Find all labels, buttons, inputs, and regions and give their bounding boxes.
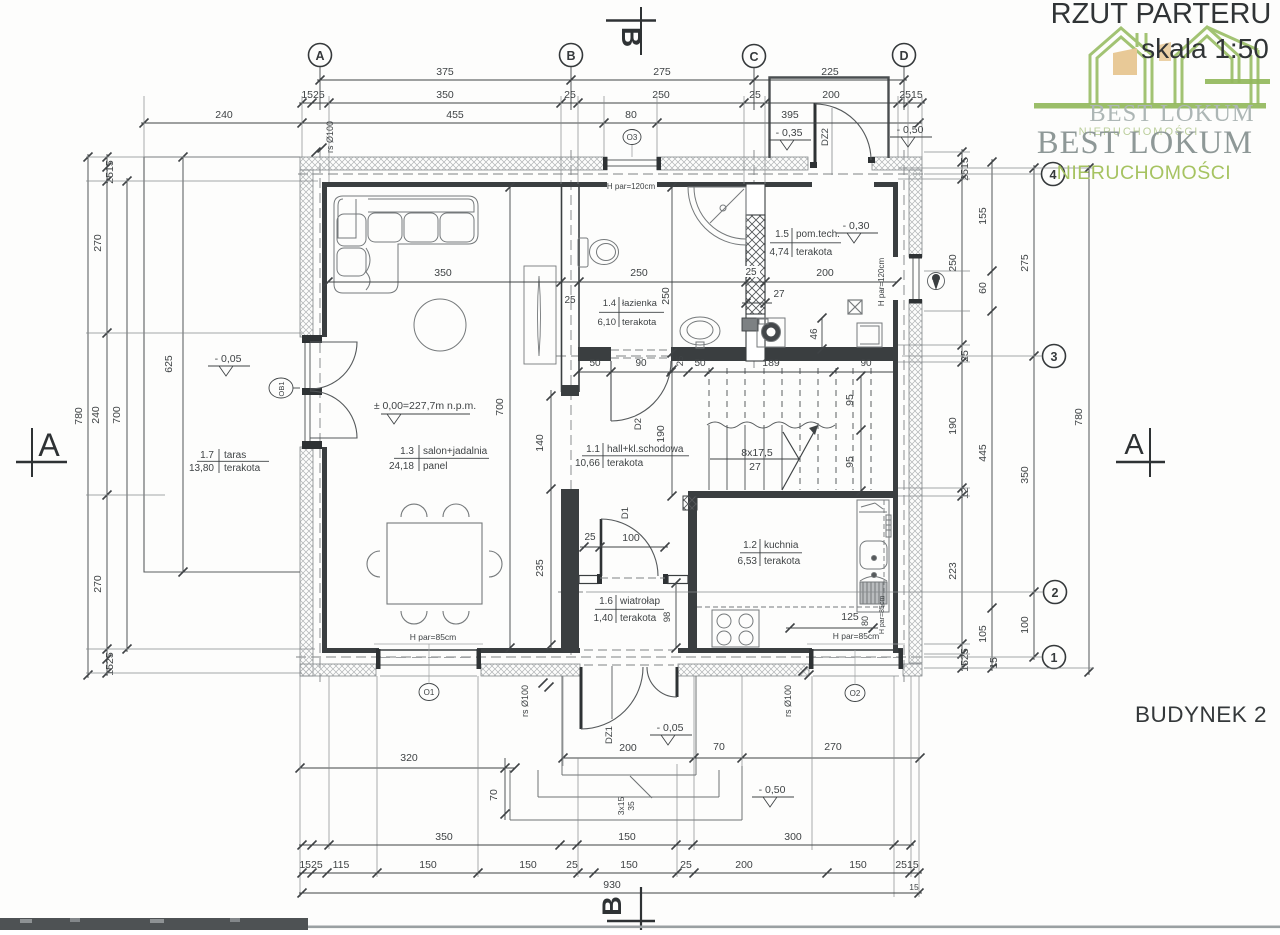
axis D line: [903, 150, 905, 682]
svg-text:D: D: [899, 49, 908, 63]
logo door tan: [1113, 48, 1137, 75]
svg-text:320: 320: [400, 752, 418, 764]
logo houses: [1090, 27, 1258, 104]
svg-text:H par=120cm: H par=120cm: [877, 258, 886, 307]
svg-text:60: 60: [977, 282, 989, 294]
dim row C 930: [299, 892, 922, 894]
wall hatch bottom seg3: [678, 664, 809, 676]
svg-text:15: 15: [988, 657, 1000, 669]
svg-text:780: 780: [73, 407, 85, 425]
svg-text:3: 3: [1051, 350, 1058, 364]
svg-text:90: 90: [860, 358, 872, 369]
svg-text:250: 250: [652, 89, 670, 101]
svg-text:150: 150: [419, 859, 437, 871]
dim 320: [300, 767, 515, 769]
svg-text:200: 200: [816, 267, 834, 279]
bottom-left smudge: [0, 918, 308, 930]
svg-text:70: 70: [713, 741, 725, 753]
wall bathroom-hall seg2: [671, 347, 746, 361]
svg-text:270: 270: [824, 741, 842, 753]
chimney shaft: [746, 184, 765, 361]
svg-text:200: 200: [735, 859, 753, 871]
svg-text:140: 140: [534, 434, 546, 452]
axis C line: [753, 150, 755, 368]
svg-text:- 0,30: - 0,30: [843, 220, 870, 232]
svg-text:1,40: 1,40: [594, 613, 614, 624]
svg-text:pom.tech.: pom.tech.: [796, 229, 840, 240]
svg-text:skala 1:50: skala 1:50: [1141, 33, 1269, 64]
sideboard: [524, 266, 556, 364]
dim kitchen 125: [786, 627, 878, 629]
axis B line: [570, 150, 572, 660]
svg-text:6,53: 6,53: [738, 556, 758, 567]
axis circle B: [560, 44, 583, 67]
svg-text:105: 105: [977, 625, 989, 643]
dim stairs top row: [578, 371, 894, 373]
svg-text:RZUT PARTERU: RZUT PARTERU: [1051, 0, 1272, 30]
wall hatch bottom seg2: [481, 664, 580, 676]
svg-text:50: 50: [694, 358, 706, 369]
svg-text:235: 235: [534, 559, 546, 577]
svg-text:terakota: terakota: [764, 556, 801, 567]
svg-text:± 0,00=227,7m n.p.m.: ± 0,00=227,7m n.p.m.: [374, 400, 476, 412]
svg-text:rs Ø100: rs Ø100: [783, 685, 793, 717]
svg-text:70: 70: [488, 789, 500, 801]
svg-text:- 0,05: - 0,05: [657, 722, 684, 734]
door DZ2 porch: [814, 103, 817, 166]
terrace dim 625: [182, 157, 184, 572]
svg-text:150: 150: [620, 859, 638, 871]
axis 4 line: [298, 173, 924, 175]
dim salon 350: [328, 281, 897, 283]
svg-text:225: 225: [821, 66, 839, 78]
svg-text:kuchnia: kuchnia: [764, 540, 799, 551]
axis 3 line: [556, 355, 898, 357]
kitchen counter right: [857, 500, 891, 612]
shower: [688, 187, 746, 245]
svg-text:12: 12: [959, 487, 971, 499]
svg-text:350: 350: [435, 831, 453, 843]
svg-text:taras: taras: [224, 450, 246, 461]
wall inner face left upper: [322, 187, 327, 337]
svg-text:terakota: terakota: [622, 317, 657, 328]
dining table: [387, 523, 482, 604]
porch door centerline: [831, 108, 833, 175]
stairs break line: [707, 422, 835, 428]
svg-text:D2: D2: [633, 418, 644, 430]
bottom scan line: [0, 926, 1280, 929]
svg-text:1.3: 1.3: [400, 446, 414, 457]
axis connectors right: [924, 173, 1041, 175]
svg-text:98: 98: [662, 612, 673, 623]
dim bathroom chain 250/25/190: [671, 187, 673, 496]
wall hatch left upper: [300, 170, 313, 337]
svg-text:1.4: 1.4: [603, 298, 616, 309]
wall hatch right lower: [909, 300, 922, 663]
washbasin: [680, 317, 720, 348]
wall hatch top-mid segment: [657, 157, 808, 170]
witness lines top: [143, 96, 145, 157]
wall hatch top-right segment: [872, 157, 922, 170]
svg-text:125: 125: [841, 611, 859, 623]
svg-text:223: 223: [947, 562, 959, 580]
boiler: [857, 323, 882, 347]
svg-text:DZ2: DZ2: [820, 128, 831, 146]
axis A line: [319, 148, 321, 682]
section A right: [1149, 428, 1151, 477]
svg-text:300: 300: [784, 831, 802, 843]
svg-text:50: 50: [589, 358, 601, 369]
wall hatch top-left segment: [300, 157, 607, 170]
terrace outline: [144, 157, 300, 572]
svg-text:1.1: 1.1: [586, 444, 600, 455]
stairs arrow: [782, 432, 814, 490]
wall inner face bottom seg1: [322, 648, 379, 653]
svg-text:BEST LOKUM: BEST LOKUM: [1089, 100, 1254, 127]
svg-text:13,80: 13,80: [189, 463, 214, 474]
svg-text:4,74: 4,74: [770, 247, 790, 258]
porch outline: [770, 78, 889, 159]
svg-text:80: 80: [625, 109, 637, 121]
steps slope mark: [630, 776, 652, 798]
axis circle D: [893, 44, 916, 67]
dim stairs 95/95: [860, 376, 862, 491]
svg-text:1525: 1525: [299, 859, 323, 871]
svg-text:700: 700: [494, 398, 506, 416]
svg-text:350: 350: [434, 267, 452, 279]
dim salon 700: [509, 187, 511, 648]
wall stairs-kitchen: [688, 491, 893, 498]
svg-text:100: 100: [622, 532, 640, 544]
wall kitchen-west: [688, 498, 697, 648]
window O1: [380, 649, 477, 651]
wall inner face top seg2: [657, 182, 812, 187]
wall inner face bottom seg2: [477, 648, 580, 653]
svg-text:200: 200: [619, 742, 637, 754]
svg-text:NIERUCHOMOŚCI: NIERUCHOMOŚCI: [1057, 160, 1231, 184]
wall salon-wiatrolap: [561, 489, 579, 653]
dim right chain3: [1033, 165, 1035, 660]
svg-text:DZ1: DZ1: [604, 726, 615, 744]
svg-text:1.5: 1.5: [775, 229, 789, 240]
axis 1 line: [296, 656, 924, 658]
section B top: [640, 7, 642, 55]
svg-text:A: A: [38, 427, 60, 463]
svg-text:25: 25: [745, 267, 757, 278]
svg-text:2515: 2515: [104, 160, 116, 184]
label OB1: [269, 378, 293, 398]
svg-text:2515: 2515: [895, 859, 919, 871]
svg-text:27: 27: [773, 289, 785, 300]
svg-text:- 0,50: - 0,50: [897, 124, 924, 136]
witness bottom: [299, 676, 301, 897]
axis circle 2: [1044, 581, 1067, 604]
svg-text:46: 46: [809, 328, 820, 340]
svg-text:25: 25: [584, 532, 596, 543]
svg-text:terakota: terakota: [796, 247, 833, 258]
svg-text:25: 25: [680, 859, 692, 871]
axis circle 3: [1043, 345, 1066, 368]
dim row3 240/455/80/395: [141, 122, 922, 124]
wall inner face top seg3: [874, 182, 898, 187]
svg-text:B: B: [597, 896, 627, 916]
svg-text:240: 240: [215, 109, 233, 121]
svg-text:A: A: [1124, 429, 1144, 461]
svg-text:1: 1: [1051, 651, 1058, 665]
door DZ1 leaf2: [676, 667, 679, 697]
svg-text:95: 95: [844, 394, 856, 406]
svg-text:190: 190: [655, 425, 667, 443]
rug circle: [414, 299, 466, 351]
dim right chain2: [991, 159, 993, 671]
svg-text:25: 25: [564, 89, 576, 101]
dim right chain1: [961, 149, 963, 671]
wall inner face left lower: [322, 447, 327, 653]
section A left: [31, 428, 33, 477]
svg-text:115: 115: [333, 859, 350, 871]
stove: [712, 610, 759, 647]
axis circle 1: [1043, 646, 1066, 669]
wall hatch right upper: [909, 170, 922, 257]
sofa: [334, 196, 478, 293]
wall inner face bottom seg3: [678, 648, 812, 653]
hatched block kitchen corner: [683, 496, 697, 510]
svg-text:25: 25: [675, 356, 686, 367]
svg-text:8x17,5: 8x17,5: [741, 447, 773, 459]
svg-text:C: C: [749, 50, 758, 64]
balcony door OB1 glazing: [304, 337, 306, 447]
svg-text:4: 4: [1050, 168, 1057, 182]
svg-text:35: 35: [626, 801, 636, 811]
logo bars: [1034, 103, 1266, 109]
svg-text:O1: O1: [424, 688, 435, 697]
svg-text:190: 190: [947, 417, 959, 435]
wall hatch left lower: [300, 447, 313, 676]
svg-text:95: 95: [844, 456, 856, 468]
floor gully: [742, 318, 758, 331]
svg-text:270: 270: [92, 234, 104, 252]
entry steps: [561, 676, 563, 775]
vent symbol right: [928, 273, 945, 290]
svg-text:BUDYNEK 2: BUDYNEK 2: [1135, 702, 1267, 727]
label O2: [845, 685, 865, 702]
svg-text:BEST LOKUM: BEST LOKUM: [1037, 125, 1253, 161]
svg-text:350: 350: [436, 89, 454, 101]
dim 46 washer: [821, 318, 823, 349]
svg-text:rs Ø100: rs Ø100: [325, 121, 335, 153]
svg-text:1525: 1525: [104, 652, 116, 676]
svg-text:275: 275: [1019, 254, 1031, 272]
dim left 780: [87, 154, 89, 678]
svg-text:B: B: [566, 49, 575, 63]
stairs treads: [709, 368, 871, 490]
window O3: [607, 159, 657, 161]
svg-text:H par=85cm: H par=85cm: [879, 596, 886, 634]
witness lines left: [86, 156, 300, 158]
svg-text:200: 200: [822, 89, 840, 101]
svg-text:24,18: 24,18: [389, 461, 414, 472]
dim row2: [299, 102, 925, 104]
svg-text:2: 2: [1052, 586, 1059, 600]
dim salon 140/235 chain: [550, 390, 552, 650]
svg-text:189: 189: [762, 357, 780, 369]
svg-text:15: 15: [909, 882, 919, 892]
door D2: [610, 361, 612, 421]
svg-text:terakota: terakota: [224, 463, 261, 474]
svg-text:O2: O2: [850, 689, 861, 698]
svg-text:150: 150: [519, 859, 537, 871]
wall inner face top seg1: [322, 182, 607, 187]
svg-text:6,10: 6,10: [598, 317, 617, 328]
svg-text:1.2: 1.2: [743, 540, 757, 551]
dim D1 100: [580, 546, 668, 548]
toilet: [578, 238, 619, 267]
wall inner face bottom seg4: [893, 648, 903, 653]
svg-text:2515: 2515: [959, 157, 971, 181]
dim row A 350/150/300: [299, 844, 914, 846]
svg-text:terakota: terakota: [607, 458, 644, 469]
wall salon-bathroom outline: [561, 182, 563, 392]
svg-text:250: 250: [660, 287, 672, 305]
svg-text:625: 625: [163, 355, 175, 373]
window right wall: [912, 258, 914, 300]
label O1: [419, 684, 439, 701]
svg-text:- 0,05: - 0,05: [215, 353, 242, 365]
door DZ1 leaf1: [580, 667, 583, 729]
kitchen counter dashed: [697, 606, 884, 608]
svg-text:350: 350: [1019, 466, 1031, 484]
door OB1 leaves: [310, 342, 357, 389]
svg-text:3x15: 3x15: [616, 797, 626, 816]
dim wiatrolap 98: [675, 583, 677, 648]
svg-text:D1: D1: [620, 507, 631, 519]
svg-text:łazienka: łazienka: [622, 298, 658, 309]
svg-text:H par=85cm: H par=85cm: [410, 632, 457, 642]
wall inner face right lower: [893, 300, 898, 648]
chairs: [367, 504, 502, 624]
dim 200/70: [563, 757, 920, 759]
axis circle C: [743, 45, 766, 68]
svg-text:80: 80: [860, 616, 870, 626]
svg-text:155: 155: [977, 207, 989, 225]
wall pomtech-hall: [765, 347, 893, 361]
svg-text:terakota: terakota: [620, 613, 657, 624]
window O2: [813, 649, 899, 651]
svg-text:150: 150: [849, 859, 867, 871]
wall wiatrolap-north seg1: [579, 576, 598, 584]
svg-text:275: 275: [653, 66, 671, 78]
wall hatch bottom seg4: [903, 664, 922, 676]
door D1: [600, 519, 603, 576]
svg-text:2515: 2515: [899, 89, 923, 101]
dim right 780: [1088, 165, 1090, 675]
axis circle 4: [1042, 163, 1065, 186]
svg-text:100: 100: [1019, 616, 1031, 634]
svg-text:25: 25: [564, 295, 576, 306]
dim left chain: [106, 154, 108, 676]
svg-text:panel: panel: [423, 461, 447, 472]
dim row B: [299, 872, 922, 874]
svg-text:780: 780: [1073, 408, 1085, 426]
svg-text:A: A: [315, 49, 324, 63]
dim bathroom row 250/25/200: [743, 266, 760, 277]
witness lines right: [924, 151, 970, 153]
svg-text:455: 455: [446, 109, 464, 121]
axis circle A: [309, 44, 332, 67]
wall inner face right upper: [893, 187, 898, 257]
svg-text:25: 25: [566, 859, 578, 871]
svg-text:930: 930: [603, 879, 621, 891]
svg-text:H par=120cm: H par=120cm: [607, 182, 656, 191]
svg-text:- 0,35: - 0,35: [776, 127, 803, 139]
svg-text:H par=85cm: H par=85cm: [833, 631, 880, 641]
wall wiatrolap-north seg2: [663, 574, 668, 584]
svg-text:240: 240: [90, 406, 102, 424]
svg-text:O3: O3: [627, 133, 638, 142]
section B bottom: [640, 887, 642, 930]
svg-text:salon+jadalnia: salon+jadalnia: [423, 446, 488, 457]
wall hatch bottom seg1: [300, 664, 376, 676]
svg-text:1.7: 1.7: [200, 450, 214, 461]
dim row1 375/275/225: [317, 79, 907, 81]
svg-text:hall+kl.schodowa: hall+kl.schodowa: [607, 444, 684, 455]
axis 2 line: [558, 591, 586, 593]
dim 70 vertical: [504, 758, 506, 820]
svg-text:- 0,50: - 0,50: [759, 784, 786, 796]
svg-text:90: 90: [635, 358, 647, 369]
label O3: [623, 130, 641, 145]
floor drain pomtech: [848, 300, 862, 314]
svg-text:445: 445: [977, 444, 989, 462]
svg-text:150: 150: [618, 831, 636, 843]
svg-text:375: 375: [436, 66, 454, 78]
svg-text:rs Ø100: rs Ø100: [520, 685, 530, 717]
svg-text:1.6: 1.6: [599, 596, 613, 607]
svg-text:10,66: 10,66: [575, 458, 600, 469]
svg-text:25: 25: [749, 89, 761, 101]
svg-text:27: 27: [749, 461, 761, 473]
svg-text:wiatrołap: wiatrołap: [619, 596, 660, 607]
svg-text:270: 270: [92, 575, 104, 593]
dim left 700: [126, 178, 128, 652]
svg-text:250: 250: [947, 254, 959, 272]
svg-text:250: 250: [630, 267, 648, 279]
svg-text:OB1: OB1: [277, 381, 286, 396]
svg-text:700: 700: [111, 406, 123, 424]
svg-text:1525: 1525: [301, 89, 325, 101]
svg-text:B: B: [616, 27, 647, 47]
svg-text:395: 395: [781, 109, 799, 121]
washing machine: [757, 318, 785, 347]
wall bathroom-hall seg1: [578, 347, 611, 361]
